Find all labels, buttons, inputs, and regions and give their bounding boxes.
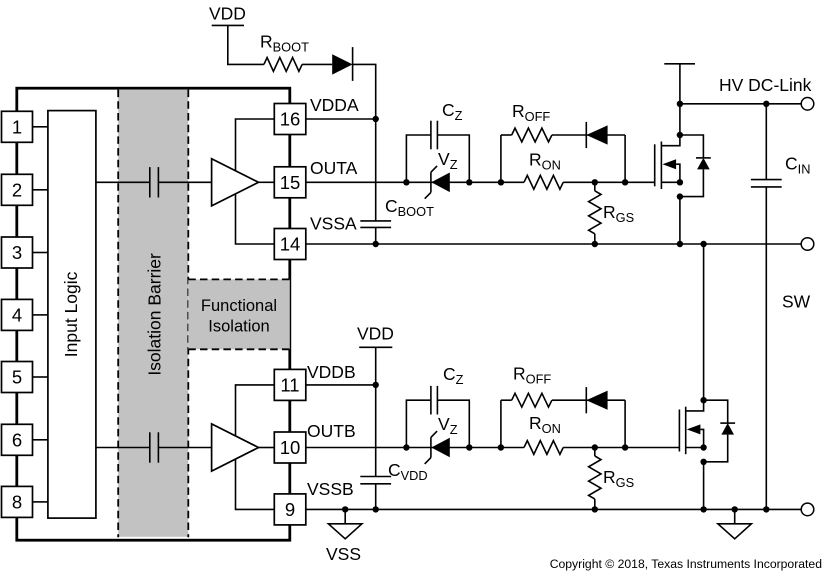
svg-text:CBOOT: CBOOT xyxy=(385,196,434,219)
svg-text:CZ: CZ xyxy=(442,100,463,123)
isolation barrier shaded band xyxy=(118,90,188,537)
svg-text:OUTA: OUTA xyxy=(310,158,358,178)
capacitor C_Z plates channel A xyxy=(430,121,432,150)
body diode DA branch xyxy=(680,135,704,158)
resistor R_OFF channel A xyxy=(512,128,552,142)
wire pin 3 stub xyxy=(33,252,48,254)
capacitor C_IN xyxy=(765,104,767,180)
node VDDB junction xyxy=(373,382,379,388)
wire pin 11 VDDB to VDD node xyxy=(306,384,376,386)
svg-text:CVDD: CVDD xyxy=(388,460,428,483)
VDD supply rail (top) xyxy=(212,24,244,26)
capacitor C_Z plates channel B xyxy=(430,386,432,415)
node junction x=594.8 channel B xyxy=(592,444,598,450)
wire VDD rail down to VDDB node xyxy=(375,347,377,476)
wire C_VDD to VSSB rail xyxy=(375,484,377,510)
resistor R_ON channel A xyxy=(524,175,563,189)
svg-text:HV DC-Link: HV DC-Link xyxy=(719,75,812,95)
node junction x=406.4 channel A xyxy=(403,179,409,185)
isolation barrier right dashed boundary xyxy=(187,90,189,538)
wire OUTA line right segment to gate xyxy=(563,181,655,183)
node QB diode top junction xyxy=(700,397,706,403)
wire R_OFF branch left riser channel A xyxy=(500,135,502,182)
wire pin 9 to driver B bottom xyxy=(236,459,275,509)
pin 5 xyxy=(2,362,33,393)
svg-text:Isolation: Isolation xyxy=(208,317,269,335)
svg-text:15: 15 xyxy=(280,172,301,193)
wire R_OFF branch left segment channel A xyxy=(501,134,512,136)
node R_GS bottom channel B xyxy=(592,506,598,512)
svg-text:4: 4 xyxy=(12,305,22,326)
node C_VDD bottom junction xyxy=(373,506,379,512)
wire QB source down to ground rail xyxy=(703,462,705,510)
wire QA drain to HV rail xyxy=(679,64,681,135)
svg-text:6: 6 xyxy=(12,429,22,450)
wire pin 6 stub xyxy=(33,439,48,441)
svg-text:14: 14 xyxy=(280,234,301,255)
svg-text:10: 10 xyxy=(280,437,301,458)
wire isolation cap to driver channel B xyxy=(158,447,211,449)
svg-text:Copyright © 2018, Texas Instru: Copyright © 2018, Texas Instruments Inco… xyxy=(550,557,822,571)
svg-text:RGS: RGS xyxy=(603,467,634,490)
SW line xyxy=(306,243,801,245)
svg-text:VZ: VZ xyxy=(438,149,458,172)
terminal SW xyxy=(801,238,814,251)
pin 8 xyxy=(2,486,33,517)
node junction x=469.3 channel A xyxy=(466,179,472,185)
svg-text:2: 2 xyxy=(12,179,22,200)
svg-text:ROFF: ROFF xyxy=(513,363,551,386)
node junction x=406.4 channel B xyxy=(403,444,409,450)
svg-text:8: 8 xyxy=(12,492,22,513)
functional isolation top dashed boundary xyxy=(188,278,289,280)
svg-text:VDD: VDD xyxy=(357,324,394,344)
transistor QA source stub xyxy=(661,181,680,183)
node QB drain at SW xyxy=(700,241,706,247)
node QB source at ground rail xyxy=(700,506,706,512)
transistor QA gate bar xyxy=(654,144,656,186)
wire isolation cap to driver channel A xyxy=(158,181,211,183)
capacitor C_VDD xyxy=(360,476,391,478)
VSSB ground rail xyxy=(306,508,801,510)
node VSS ground junction xyxy=(342,506,348,512)
driver buffer amplifier channel B xyxy=(212,424,259,471)
wire input-logic to isolation cap channel B xyxy=(96,447,150,449)
body diode DB branch xyxy=(704,400,728,423)
terminal ground rail xyxy=(801,503,814,516)
transistor QB drain stub xyxy=(686,400,704,411)
svg-text:CIN: CIN xyxy=(785,153,810,176)
node QA diode bottom junction xyxy=(677,193,683,199)
resistor R_BOOT xyxy=(264,58,302,72)
wire VDD to R_BOOT xyxy=(228,25,264,64)
ground VSS symbol xyxy=(344,509,346,523)
pin 16 xyxy=(274,104,306,135)
wire OUTB line left segment xyxy=(306,447,524,449)
wire input-logic to isolation cap channel A xyxy=(96,181,150,183)
resistor R_ON channel B xyxy=(524,441,563,455)
functional isolation shaded box xyxy=(188,279,289,349)
node QB source junction xyxy=(700,444,706,450)
svg-text:RON: RON xyxy=(529,150,561,173)
wire R_OFF branch right riser channel A xyxy=(624,135,626,182)
pin 15 xyxy=(274,167,306,198)
wire R_OFF to diode channel B xyxy=(552,399,625,401)
wire QB drain up to SW line xyxy=(703,244,705,400)
pin 14 xyxy=(274,229,306,260)
bootstrap diode D_BOOT xyxy=(332,54,352,74)
wire bootstrap diode to VDDA node xyxy=(353,64,376,119)
svg-text:OUTB: OUTB xyxy=(307,421,356,441)
turn-off diode channel B xyxy=(586,391,607,410)
HV supply top bar xyxy=(664,63,695,65)
pin 10 xyxy=(274,432,306,463)
wire pin 2 stub xyxy=(33,189,48,191)
ground power symbol xyxy=(734,509,736,523)
capacitor C_Z box channel B xyxy=(406,400,431,447)
node junction x=500.9 channel A xyxy=(498,179,504,185)
resistor R_OFF channel B xyxy=(512,393,552,407)
pin 11 xyxy=(274,369,306,400)
wire driver output channel A xyxy=(259,181,275,183)
node junction x=625.1 channel A xyxy=(622,179,628,185)
resistor R_GS channel B xyxy=(594,448,596,457)
node junction x=500.9 channel B xyxy=(498,444,504,450)
svg-text:VDDA: VDDA xyxy=(310,95,359,115)
pin 1 xyxy=(2,111,33,142)
svg-text:VSSB: VSSB xyxy=(307,479,354,499)
capacitor C_Z box channel A xyxy=(406,135,431,182)
transistor QB source stub xyxy=(686,447,704,449)
svg-text:VZ: VZ xyxy=(438,414,458,437)
wire pin 16 to driver A top xyxy=(236,119,275,170)
node R_GS bottom channel A xyxy=(592,241,598,247)
svg-text:16: 16 xyxy=(280,109,301,130)
zener diode V_Z channel A xyxy=(431,173,450,193)
wire QA source down to SW line xyxy=(679,197,681,244)
functional isolation bottom dashed boundary xyxy=(188,348,289,350)
turn-off diode channel A xyxy=(586,125,607,144)
wire pin 8 stub xyxy=(33,501,48,503)
svg-text:RGS: RGS xyxy=(603,202,634,225)
wire driver output channel B xyxy=(259,447,275,449)
svg-text:RON: RON xyxy=(529,413,561,436)
terminal HV DC-Link xyxy=(801,98,814,111)
transistor QB channel bar xyxy=(685,407,687,455)
wire VDDA node down to C_BOOT xyxy=(375,119,377,221)
svg-text:VSSA: VSSA xyxy=(310,213,357,233)
transistor QA channel bar xyxy=(660,142,662,190)
isolation capacitor channel A xyxy=(149,167,151,197)
svg-text:SW: SW xyxy=(782,291,811,311)
transistor QB gate bar xyxy=(678,410,680,452)
svg-text:Input Logic: Input Logic xyxy=(61,271,81,357)
pin 9 xyxy=(274,494,306,525)
wire pin 5 stub xyxy=(33,376,48,378)
svg-text:VSS: VSS xyxy=(326,544,361,564)
node power ground junction xyxy=(732,506,738,512)
zener diode V_Z channel B xyxy=(431,438,450,458)
wire pin 11 to driver B top xyxy=(236,385,275,436)
capacitor C_BOOT xyxy=(360,220,391,222)
node QA source junction xyxy=(677,179,683,185)
transistor QA drain stub xyxy=(661,135,680,146)
wire R_OFF to diode channel A xyxy=(552,134,625,136)
svg-text:RBOOT: RBOOT xyxy=(260,31,309,54)
svg-text:CZ: CZ xyxy=(443,364,464,387)
wire R_OFF branch left segment channel B xyxy=(501,399,512,401)
wire R_OFF branch right riser channel B xyxy=(624,400,626,447)
node HV rail junction xyxy=(677,101,683,107)
input logic block xyxy=(48,111,96,518)
wire pin 16 VDDA to bootstrap node xyxy=(306,118,376,120)
pin 3 xyxy=(2,237,33,268)
wire pin 1 stub xyxy=(33,126,48,128)
pin 6 xyxy=(2,424,33,455)
svg-text:ROFF: ROFF xyxy=(512,101,550,124)
svg-text:5: 5 xyxy=(12,367,22,388)
transistor QA body arrow xyxy=(663,159,677,169)
svg-text:Isolation Barrier: Isolation Barrier xyxy=(145,253,165,376)
svg-text:3: 3 xyxy=(12,242,22,263)
wire R_BOOT to bootstrap diode xyxy=(302,63,332,65)
node QA diode top junction xyxy=(677,132,683,138)
svg-text:11: 11 xyxy=(280,375,299,396)
pin 2 xyxy=(2,174,33,205)
wire pin 4 stub xyxy=(33,314,48,316)
node junction x=469.3 channel B xyxy=(466,444,472,450)
svg-text:VDD: VDD xyxy=(209,3,246,23)
wire pin 14 to driver A bottom xyxy=(236,194,275,244)
node QA source at SW xyxy=(677,241,683,247)
svg-text:VDDB: VDDB xyxy=(307,362,356,382)
wire C_BOOT to VSSA line xyxy=(375,227,377,244)
node junction x=594.8 channel A xyxy=(592,179,598,185)
node VDDA junction xyxy=(373,116,379,122)
wire C_IN bottom to ground rail xyxy=(765,187,767,510)
node C_IN bottom junction xyxy=(763,506,769,512)
driver buffer amplifier channel A xyxy=(212,159,259,206)
pin 4 xyxy=(2,299,33,330)
wire R_OFF branch left riser channel B xyxy=(500,400,502,447)
wire OUTB line right segment to gate xyxy=(563,447,679,449)
node QB diode bottom junction xyxy=(700,459,706,465)
node C_BOOT / VSSA junction xyxy=(373,241,379,247)
wire OUTA line left segment xyxy=(306,181,524,183)
node C_IN top junction xyxy=(763,101,769,107)
svg-text:9: 9 xyxy=(285,499,295,520)
node junction x=625.1 channel B xyxy=(622,444,628,450)
isolation capacitor channel B xyxy=(149,432,151,462)
VDD supply rail (channel B) xyxy=(359,346,392,348)
svg-text:Functional: Functional xyxy=(201,297,277,315)
resistor R_GS channel A xyxy=(594,182,596,191)
transistor QB body arrow xyxy=(687,424,701,434)
IC U1 outline xyxy=(17,88,290,540)
isolation barrier left dashed boundary xyxy=(117,90,119,538)
svg-text:1: 1 xyxy=(12,116,22,137)
HV DC-Link wire xyxy=(680,103,801,105)
